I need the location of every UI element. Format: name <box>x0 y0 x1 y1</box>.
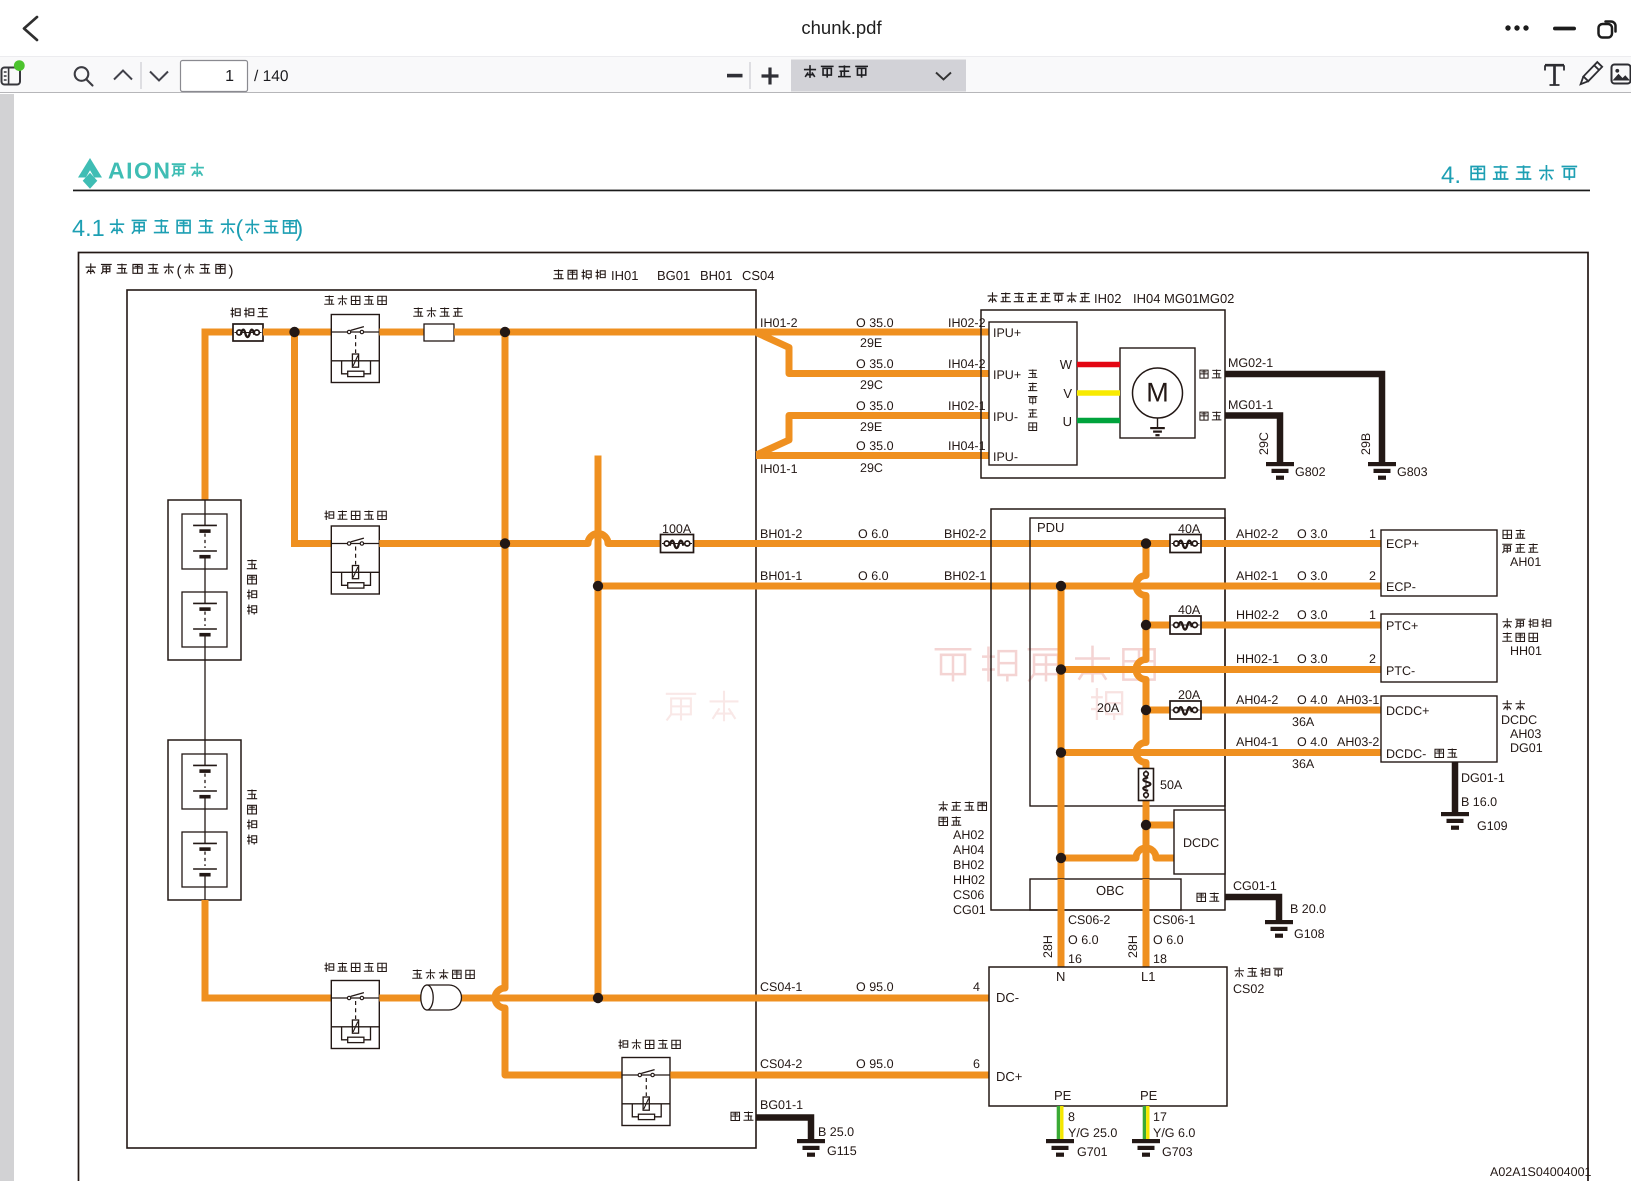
svg-text:G703: G703 <box>1162 1145 1193 1159</box>
svg-text:DG01-1: DG01-1 <box>1461 771 1505 785</box>
svg-text:IPU-: IPU- <box>993 410 1018 424</box>
svg-text:IH01: IH01 <box>611 268 638 283</box>
wire IH01-1 vertical bus x598 <box>595 456 602 999</box>
PE wire to G703 <box>1143 1106 1146 1140</box>
svg-text:IPU+: IPU+ <box>993 326 1021 340</box>
svg-text:IH02-2: IH02-2 <box>948 316 986 330</box>
ground wire MG02-1 to G803 <box>1200 369 1221 378</box>
svg-text:CG01: CG01 <box>953 903 986 917</box>
wire to DCDC top <box>1146 822 1174 829</box>
svg-text:G109: G109 <box>1477 819 1508 833</box>
svg-text:HH02: HH02 <box>953 873 985 887</box>
wire AH02-1 <box>1061 583 1381 590</box>
svg-text:O 35.0: O 35.0 <box>856 399 894 413</box>
svg-text:29B: 29B <box>1359 433 1373 455</box>
svg-text:M: M <box>1146 378 1169 408</box>
svg-text:MG01-1: MG01-1 <box>1228 398 1273 412</box>
svg-text:Y/G 6.0: Y/G 6.0 <box>1153 1126 1195 1140</box>
svg-text:2: 2 <box>1369 569 1376 583</box>
PSU outer box <box>991 509 1225 910</box>
svg-text:HH02-2: HH02-2 <box>1236 608 1279 622</box>
fuse bus vertical <box>1136 544 1146 968</box>
svg-text:AH04: AH04 <box>953 843 984 857</box>
svg-text:4.1: 4.1 <box>72 215 105 241</box>
svg-text:8: 8 <box>1068 1110 1075 1124</box>
svg-text:AH02-2: AH02-2 <box>1236 527 1278 541</box>
svg-text:AH03-2: AH03-2 <box>1337 735 1379 749</box>
svg-text:28H: 28H <box>1041 935 1055 958</box>
svg-text:ECP-: ECP- <box>1386 580 1416 594</box>
svg-text:36A: 36A <box>1292 757 1315 771</box>
svg-text:ECP+: ECP+ <box>1386 537 1419 551</box>
svg-text:DCDC: DCDC <box>1183 836 1219 850</box>
svg-text:BH02: BH02 <box>953 858 984 872</box>
svg-text:1: 1 <box>1369 608 1376 622</box>
vertical bus from node B down to fast-charge branch <box>495 332 622 1075</box>
svg-text:O 4.0: O 4.0 <box>1297 735 1328 749</box>
svg-text:18: 18 <box>1153 952 1167 966</box>
svg-text:A02A1S04004001: A02A1S04004001 <box>1490 1165 1592 1179</box>
svg-text:B 25.0: B 25.0 <box>818 1125 854 1139</box>
svg-text:O 35.0: O 35.0 <box>856 316 894 330</box>
svg-text:O 3.0: O 3.0 <box>1297 527 1328 541</box>
svg-text:BG01-1: BG01-1 <box>760 1098 803 1112</box>
svg-text:O 3.0: O 3.0 <box>1297 608 1328 622</box>
svg-text:HH02-1: HH02-1 <box>1236 652 1279 666</box>
svg-text:AH02-1: AH02-1 <box>1236 569 1278 583</box>
svg-text:O 3.0: O 3.0 <box>1297 652 1328 666</box>
ECP box 空调压缩机 AH01 <box>1381 530 1497 596</box>
svg-text:/ 140: / 140 <box>254 68 289 85</box>
wire relay to precharge resistor <box>379 329 424 336</box>
svg-text:B 20.0: B 20.0 <box>1290 902 1326 916</box>
svg-text:O 95.0: O 95.0 <box>856 1057 894 1071</box>
svg-text:O 6.0: O 6.0 <box>1153 933 1184 947</box>
svg-text:2: 2 <box>1369 652 1376 666</box>
wire BH01-1 <box>598 583 756 590</box>
svg-text:6: 6 <box>973 1057 980 1071</box>
left bus <box>1058 586 1065 967</box>
svg-text:DC-: DC- <box>996 990 1019 1005</box>
svg-text:O 6.0: O 6.0 <box>858 569 889 583</box>
svg-text:AION: AION <box>108 158 172 184</box>
svg-text:29E: 29E <box>860 420 882 434</box>
svg-text:4: 4 <box>973 980 980 994</box>
redundant DCDC box 冗余DCDC AH03 DG01 <box>1381 696 1497 762</box>
svg-text:N: N <box>1056 969 1065 984</box>
motor controller box 电机控制器 <box>989 322 1077 465</box>
svg-text:DC+: DC+ <box>996 1069 1022 1084</box>
ground DG01-1 to G109 <box>1452 762 1459 814</box>
wire battery+ to main fuse <box>205 332 233 500</box>
svg-text:CS04-1: CS04-1 <box>760 980 802 994</box>
svg-text:40A: 40A <box>1178 603 1201 617</box>
svg-text:IH04-2: IH04-2 <box>948 357 986 371</box>
svg-text:B 16.0: B 16.0 <box>1461 795 1497 809</box>
svg-text:IH04-1: IH04-1 <box>948 439 986 453</box>
svg-text:L1: L1 <box>1141 969 1155 984</box>
redraw buses over OBC <box>1058 879 1065 967</box>
main fuse 主保险 <box>231 308 268 318</box>
svg-text:1: 1 <box>1369 527 1376 541</box>
PDU box <box>1030 518 1225 806</box>
main negative relay 主负继电器 <box>325 963 387 973</box>
wire IH01-2 split to IPU+ <box>756 329 989 336</box>
svg-text:MG02: MG02 <box>1199 291 1234 306</box>
svg-text:G701: G701 <box>1077 1145 1108 1159</box>
drive assembly header 集成电力驱动总成 IH02 IH04 MG01 MG02 <box>988 292 1091 302</box>
link between battery modules <box>204 660 206 740</box>
wire AH04-1 <box>1061 749 1381 756</box>
svg-text:G108: G108 <box>1294 927 1325 941</box>
svg-text:(: ( <box>236 215 244 241</box>
fuse 50A <box>1139 769 1154 801</box>
wire BH02-1 to PDU <box>756 583 1061 590</box>
svg-text:G115: G115 <box>827 1144 857 1158</box>
svg-text:AH02: AH02 <box>953 828 984 842</box>
motor ground <box>1157 418 1159 427</box>
junction dots <box>289 327 299 337</box>
svg-text:O 35.0: O 35.0 <box>856 439 894 453</box>
svg-text:IH04: IH04 <box>1133 291 1160 306</box>
svg-text:CS06-2: CS06-2 <box>1068 913 1110 927</box>
wire battery- to main negative relay <box>205 900 331 998</box>
main positive relay 主正继电器 <box>325 511 387 521</box>
svg-text:MG01: MG01 <box>1164 291 1199 306</box>
svg-text:16: 16 <box>1068 952 1082 966</box>
svg-text:1: 1 <box>225 68 234 85</box>
svg-text:O 6.0: O 6.0 <box>1068 933 1099 947</box>
wire to DCDC bottom <box>1061 848 1174 858</box>
wire HH02-1 <box>1061 666 1381 673</box>
svg-text:DCDC+: DCDC+ <box>1386 704 1429 718</box>
svg-text:AH03-1: AH03-1 <box>1337 693 1379 707</box>
svg-text:CS02: CS02 <box>1233 982 1264 996</box>
svg-text:28H: 28H <box>1126 935 1140 958</box>
svg-text:Y/G 25.0: Y/G 25.0 <box>1068 1126 1117 1140</box>
svg-text:20A: 20A <box>1178 688 1201 702</box>
svg-text:PTC+: PTC+ <box>1386 619 1418 633</box>
svg-text:MG02-1: MG02-1 <box>1228 356 1273 370</box>
ground BG01-1 <box>731 1112 753 1121</box>
svg-text:CS06: CS06 <box>953 888 984 902</box>
svg-text:HH01: HH01 <box>1510 644 1542 658</box>
DCDC box <box>1174 810 1225 874</box>
OBC box <box>1030 879 1181 910</box>
svg-text:29E: 29E <box>860 336 882 350</box>
outer diagram frame <box>79 253 1589 1181</box>
svg-text:O 3.0: O 3.0 <box>1297 569 1328 583</box>
svg-text:BG01: BG01 <box>657 268 690 283</box>
battery pack box <box>127 290 756 1148</box>
svg-text:OBC: OBC <box>1096 883 1124 898</box>
svg-text:PTC-: PTC- <box>1386 664 1415 678</box>
svg-text:BH02-1: BH02-1 <box>944 569 986 583</box>
header underline <box>73 190 1590 192</box>
svg-text:V: V <box>1063 386 1072 401</box>
svg-text:O 95.0: O 95.0 <box>856 980 894 994</box>
integrated power system label 集成电源系统 <box>939 801 987 811</box>
current sensor 电流传感器 <box>412 969 474 979</box>
svg-text:PE: PE <box>1140 1088 1158 1103</box>
svg-text:IH01-1: IH01-1 <box>760 462 798 476</box>
svg-text:36A: 36A <box>1292 715 1315 729</box>
PE wire to G701 <box>1057 1106 1060 1140</box>
svg-text:(: ( <box>177 263 182 280</box>
svg-text:CS04-2: CS04-2 <box>760 1057 802 1071</box>
svg-text:DCDC-: DCDC- <box>1386 747 1426 761</box>
wire node A down to main positive relay <box>295 332 332 544</box>
ground wire MG01-1 to G802 <box>1200 411 1221 420</box>
svg-text:IH02-1: IH02-1 <box>948 399 986 413</box>
svg-text:CS06-1: CS06-1 <box>1153 913 1195 927</box>
svg-text:IH02: IH02 <box>1094 291 1121 306</box>
svg-text:50A: 50A <box>1160 778 1183 792</box>
svg-text:PDU: PDU <box>1037 520 1064 535</box>
charge socket box CS02 充电插座 <box>989 967 1227 1106</box>
diagram title <box>86 263 174 274</box>
svg-text:DG01: DG01 <box>1510 741 1543 755</box>
drive assembly outer box <box>981 310 1225 478</box>
ground CG01-1 to G108 <box>1197 893 1219 902</box>
battery pack label 电池组箱 IH01 BG01 BH01 CS04 <box>553 270 605 280</box>
svg-text:G802: G802 <box>1295 465 1326 479</box>
precharge relay 预充继电器 <box>324 295 386 305</box>
svg-text:AH01: AH01 <box>1510 555 1541 569</box>
svg-text:O 4.0: O 4.0 <box>1297 693 1328 707</box>
svg-text:): ) <box>229 263 234 280</box>
svg-text:17: 17 <box>1153 1110 1167 1124</box>
svg-text:DCDC: DCDC <box>1501 713 1537 727</box>
svg-text:CS04: CS04 <box>742 268 775 283</box>
wire resistor to node B <box>454 329 756 336</box>
svg-text:IPU+: IPU+ <box>993 368 1021 382</box>
svg-text:PE: PE <box>1054 1088 1072 1103</box>
precharge resistor 预充电阻 <box>413 307 463 317</box>
battery module 1 电池模组 <box>168 500 241 660</box>
svg-text:AH04-1: AH04-1 <box>1236 735 1278 749</box>
motor box <box>1120 348 1195 438</box>
fast charge relay 快充继电器 <box>619 1039 681 1049</box>
svg-text:AH04-2: AH04-2 <box>1236 693 1278 707</box>
svg-text:BH01-2: BH01-2 <box>760 527 802 541</box>
svg-text:AH03: AH03 <box>1510 727 1541 741</box>
svg-text:IH01-2: IH01-2 <box>760 316 798 330</box>
svg-text:IPU-: IPU- <box>993 450 1018 464</box>
svg-text:29C: 29C <box>860 378 883 392</box>
svg-text:W: W <box>1060 357 1073 372</box>
wire BH01-2 from relay through 100A fuse <box>379 534 756 544</box>
svg-text:20A: 20A <box>1097 701 1120 715</box>
watermark row <box>935 646 1155 683</box>
svg-text:O 6.0: O 6.0 <box>858 527 889 541</box>
svg-text:BH01: BH01 <box>700 268 733 283</box>
svg-text:29C: 29C <box>860 461 883 475</box>
svg-text:): ) <box>296 215 304 241</box>
svg-text:G803: G803 <box>1397 465 1428 479</box>
PTC box 高压液体加热器 HH01 <box>1381 614 1497 682</box>
wire BH02-2 to PDU <box>756 540 1146 547</box>
svg-text:U: U <box>1063 414 1072 429</box>
wire CS04-2 to DC+ <box>670 1072 989 1079</box>
wire fuse to node A <box>263 329 331 336</box>
back button <box>0 0 60 56</box>
wire IH01-1 split to IPU- <box>756 452 989 459</box>
svg-text:O 35.0: O 35.0 <box>856 357 894 371</box>
svg-text:BH01-1: BH01-1 <box>760 569 802 583</box>
battery module 2 电池模组 <box>168 740 241 900</box>
svg-text:CG01-1: CG01-1 <box>1233 879 1277 893</box>
svg-text:4.: 4. <box>1441 162 1461 189</box>
AION logo emblem <box>78 158 102 178</box>
svg-text:29C: 29C <box>1257 432 1271 455</box>
wire relay to current sensor to CS04-1 <box>379 995 989 1002</box>
svg-text:BH02-2: BH02-2 <box>944 527 986 541</box>
